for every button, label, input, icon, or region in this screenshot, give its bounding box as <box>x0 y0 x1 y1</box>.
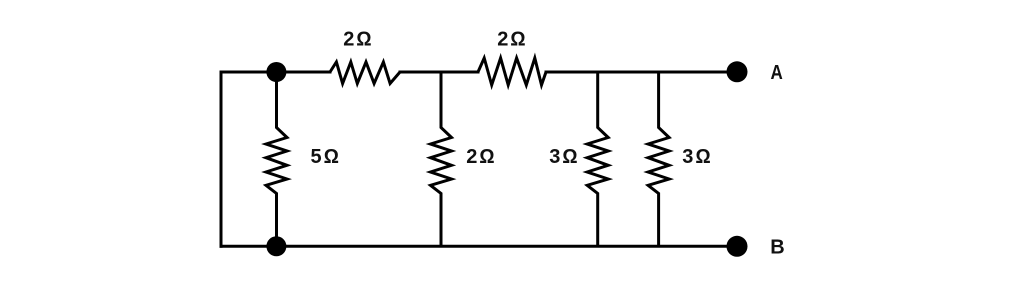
svg-text:3Ω: 3Ω <box>549 146 579 168</box>
svg-text:2Ω: 2Ω <box>466 146 496 168</box>
svg-text:B: B <box>770 237 784 259</box>
svg-text:2Ω: 2Ω <box>497 29 527 51</box>
svg-text:2Ω: 2Ω <box>343 29 373 51</box>
svg-text:3Ω: 3Ω <box>682 146 712 168</box>
svg-text:A: A <box>771 62 783 84</box>
svg-text:5Ω: 5Ω <box>311 146 341 168</box>
